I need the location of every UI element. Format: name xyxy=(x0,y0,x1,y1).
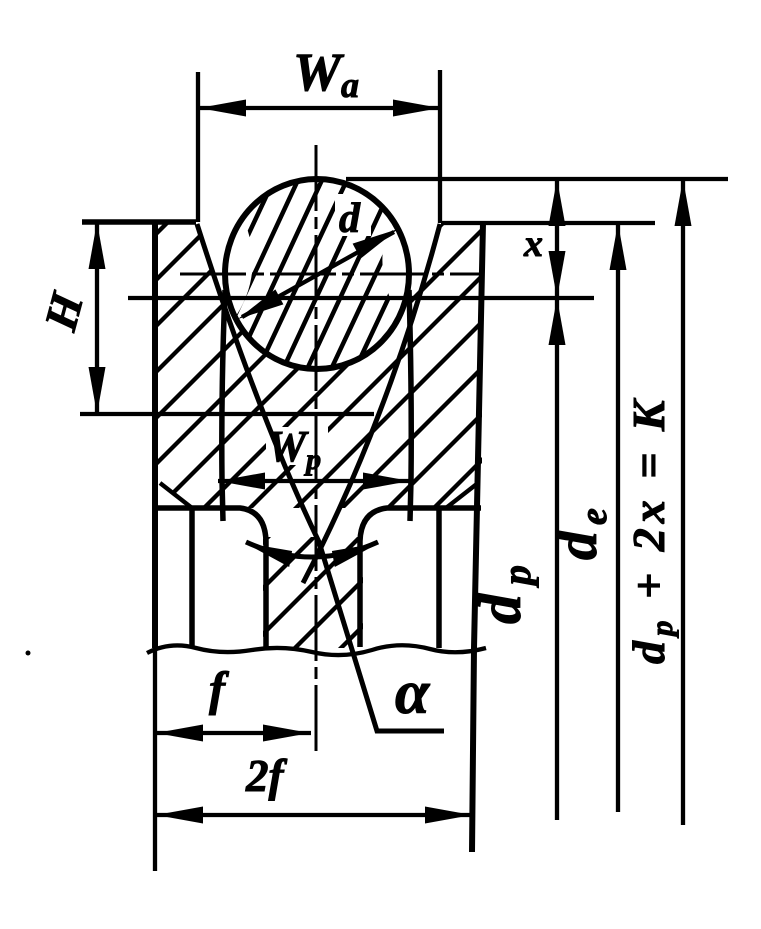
svg-text:d: d xyxy=(339,196,361,242)
svg-text:α: α xyxy=(395,659,431,727)
svg-text:x: x xyxy=(523,223,543,265)
svg-text:2f: 2f xyxy=(245,751,288,801)
